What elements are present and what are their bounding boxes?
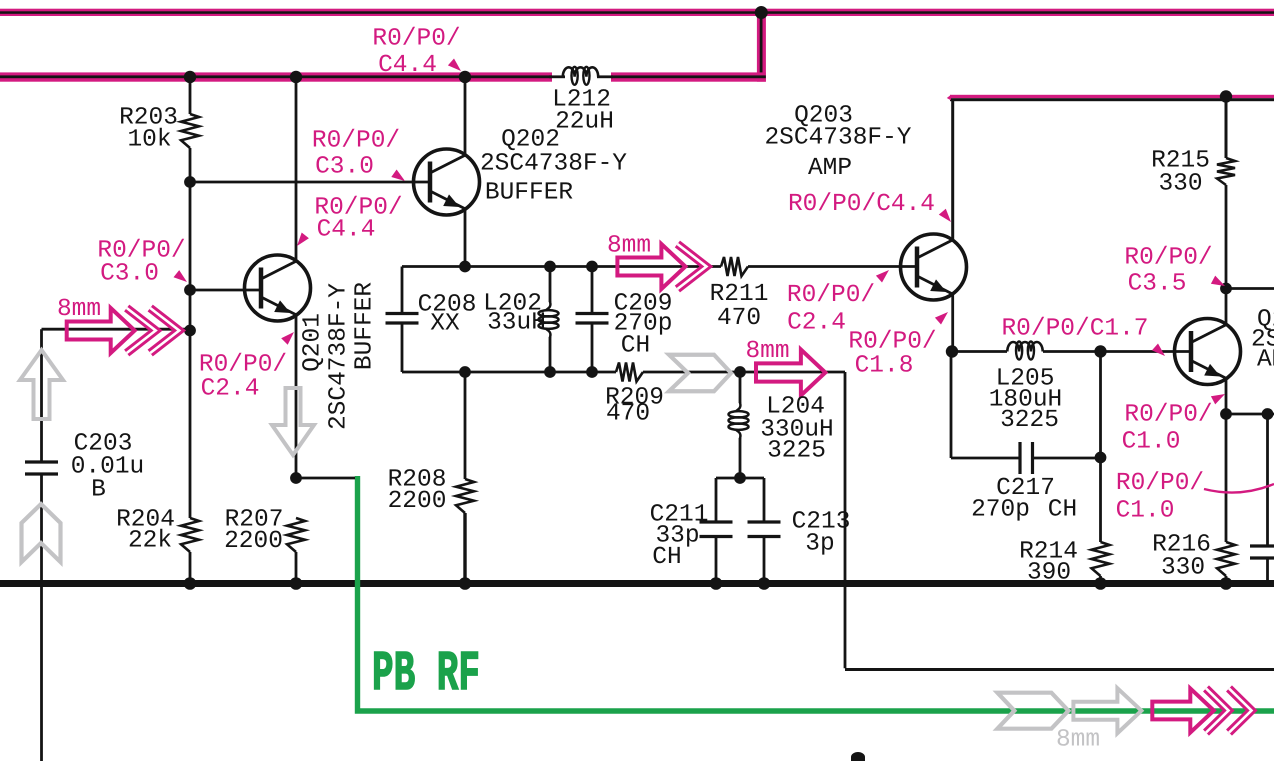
node tank bottom / C209 <box>586 366 598 378</box>
pointer to Q202 base <box>391 170 405 182</box>
svg-text:470: 470 <box>606 401 650 428</box>
wire C211 top lead <box>715 478 718 521</box>
svg-text:3225: 3225 <box>767 438 826 465</box>
wire bus2 to R203 <box>189 81 192 114</box>
pointer to bus2 <box>448 59 461 72</box>
node Q203 emitter junction <box>946 345 958 357</box>
svg-text:B: B <box>91 477 106 504</box>
node R215/Q204 collector tap <box>1220 283 1232 295</box>
resistor R215 330 <box>1217 158 1235 185</box>
svg-text:XX: XX <box>430 311 460 338</box>
pointer to Q201 emitter <box>281 332 294 345</box>
svg-text:R0/P0/: R0/P0/ <box>199 352 287 379</box>
svg-text:C3.0: C3.0 <box>315 154 374 181</box>
node C211 ground <box>710 577 723 590</box>
transistor Q204 2SC4738F-Y AMP <box>1175 319 1241 385</box>
svg-text:2200: 2200 <box>224 528 283 555</box>
wire C217 left lead <box>951 457 1020 460</box>
8mm arrow upper <box>617 244 685 289</box>
pointer to Q201 collector <box>297 233 309 247</box>
wire L204 top lead <box>739 372 742 403</box>
wire C208 top lead <box>401 267 404 313</box>
svg-text:AMP: AMP <box>808 155 852 182</box>
wire Q204 emitter <box>1225 379 1228 415</box>
svg-text:2200: 2200 <box>388 488 447 515</box>
node R216 ground <box>1220 577 1233 590</box>
grey chevron banner bottom <box>997 693 1068 729</box>
svg-text:8mm: 8mm <box>607 233 651 260</box>
svg-text:3p: 3p <box>805 531 834 558</box>
grey block arrow bottom <box>1073 688 1141 733</box>
node tank top / Q202 emitter <box>459 261 471 273</box>
capacitor C209 270p <box>576 312 609 315</box>
svg-text:3225: 3225 <box>1000 407 1059 434</box>
node tank top / C209 <box>586 261 598 273</box>
transistor Q203 2SC4738F-Y AMP <box>901 234 967 300</box>
wire Q203 collector <box>951 101 954 240</box>
node R214 ground <box>1094 577 1107 590</box>
svg-text:C2.4: C2.4 <box>787 310 846 337</box>
svg-text:AMP: AMP <box>1257 347 1274 374</box>
svg-text:CH: CH <box>1048 497 1077 524</box>
wire second power bus (highlighted) <box>0 72 552 81</box>
node C217/R214 <box>1095 452 1107 464</box>
svg-text:R211: R211 <box>710 281 769 308</box>
pointer to Q203 base <box>876 270 889 283</box>
svg-text:2SC4738F-Y: 2SC4738F-Y <box>326 283 353 430</box>
svg-text:C1.8: C1.8 <box>855 353 914 380</box>
wire L202 top lead <box>549 267 552 303</box>
wire tank bottom to R208 <box>464 372 467 479</box>
svg-text:C1.0: C1.0 <box>1116 497 1175 524</box>
transistor Q201 2SC4738F-Y <box>245 255 311 321</box>
svg-text:PB RF: PB RF <box>372 642 480 706</box>
wire right cap bottom lead <box>1266 559 1269 581</box>
resistor R216 330 <box>1217 542 1235 576</box>
svg-text:R0/P0/: R0/P0/ <box>312 128 400 155</box>
svg-text:10k: 10k <box>127 127 171 154</box>
wire Q202 base <box>190 181 430 184</box>
node R204 ground <box>184 577 197 590</box>
wire R207 to ground <box>295 552 298 581</box>
node base Q202 tap <box>184 176 196 188</box>
transistor Q202 2SC4738F-Y <box>414 149 480 215</box>
svg-text:470: 470 <box>717 305 761 332</box>
wire L212 left lead <box>549 75 565 78</box>
resistor R214 390 <box>1092 542 1110 576</box>
node Q201 emitter junction <box>290 472 302 484</box>
wire Q201 emitter to PB RF <box>296 477 355 480</box>
node 8mm arrow tap <box>184 325 196 337</box>
magenta 8mm arrow bottom right <box>1152 688 1214 732</box>
wire C211 bottom lead <box>715 538 718 581</box>
node Q204 emitter junction <box>1220 408 1232 420</box>
node bus2/Q202 <box>459 71 471 83</box>
svg-text:22k: 22k <box>128 528 172 555</box>
wire L202 bottom lead <box>549 337 552 372</box>
svg-text:330: 330 <box>1161 555 1205 582</box>
wire cap pair top rail <box>716 477 764 480</box>
svg-text:8mm: 8mm <box>745 338 789 365</box>
resistor R207 <box>287 518 305 552</box>
svg-text:0.01u: 0.01u <box>71 454 145 481</box>
svg-text:C4.4: C4.4 <box>378 52 437 79</box>
node junction top bus x=761 <box>755 6 768 19</box>
svg-text:Q202: Q202 <box>501 127 560 154</box>
wire vertical highlighted bus riser x=761 <box>757 10 766 82</box>
grey arrow up (tape path) <box>20 350 63 419</box>
svg-text:R0/P0/: R0/P0/ <box>848 329 936 356</box>
svg-text:Q201: Q201 <box>300 313 327 372</box>
wire corner down <box>844 372 847 668</box>
resistor R204 <box>181 518 199 552</box>
svg-text:22uH: 22uH <box>555 109 614 136</box>
svg-text:330: 330 <box>1158 171 1202 198</box>
svg-text:R0/P0/: R0/P0/ <box>1124 245 1212 272</box>
wire C203 top lead <box>40 329 43 461</box>
wire PB RF (green) <box>358 476 1274 711</box>
wire R215 to Q204 collector <box>1225 185 1228 325</box>
wire bus2 to Q202 collector <box>464 81 467 156</box>
wire L212 right lead <box>597 75 613 78</box>
wire bus2 to Q201 collector <box>295 81 298 261</box>
resistor R211 470 <box>721 257 748 276</box>
resistor R203 <box>181 114 199 148</box>
leader curve <box>1204 484 1274 493</box>
wire ground rail <box>0 580 1274 587</box>
inductor L204 330uH <box>729 411 749 417</box>
node L205/R214 junction <box>1094 345 1106 357</box>
wire emitter to right edge <box>1226 413 1274 416</box>
wire tank bottom rail <box>402 371 616 374</box>
svg-text:C1.0: C1.0 <box>1122 429 1181 456</box>
wire node to R214 <box>1099 352 1102 543</box>
wire C209 top lead <box>591 267 594 313</box>
node tank top / L202 <box>544 261 556 273</box>
pointer to Q204 collector node <box>1211 276 1225 286</box>
wire L204 bottom lead <box>739 438 742 478</box>
wire long output line <box>845 668 1274 671</box>
wire right cap top lead <box>1266 414 1269 545</box>
svg-text:C3.0: C3.0 <box>100 261 159 288</box>
inductor L205 180uH <box>1007 342 1042 352</box>
wire C208 bottom lead <box>401 324 404 372</box>
svg-text:C3.5: C3.5 <box>1128 271 1187 298</box>
wire Q203 emitter <box>951 294 954 352</box>
wire third bus to Q203/Q204 collectors (highlighted) <box>950 95 1274 98</box>
svg-text:270p: 270p <box>971 497 1030 524</box>
svg-text:2SC4738F-Y: 2SC4738F-Y <box>480 151 627 178</box>
svg-text:R0/P0/: R0/P0/ <box>787 282 875 309</box>
wire collector node to right edge <box>1226 287 1274 290</box>
svg-text:R0/P0/: R0/P0/ <box>1124 402 1212 429</box>
wire Q201 base <box>190 289 261 292</box>
node tank bottom / R208 branch <box>459 366 471 378</box>
node tank bottom / L202 <box>544 366 556 378</box>
wire Q202 emitter to tank <box>464 209 467 267</box>
wire bus3 to R215 <box>1225 101 1228 158</box>
capacitor C213 3p <box>748 520 781 523</box>
svg-text:R0/P0/: R0/P0/ <box>1116 470 1204 497</box>
svg-text:C4.4: C4.4 <box>317 217 376 244</box>
svg-text:R0/P0/: R0/P0/ <box>372 26 460 53</box>
wire tank top rail <box>402 265 592 268</box>
pointer to Q201 base node <box>174 270 188 282</box>
wire node to C203 branch <box>42 328 191 331</box>
node C213 ground <box>758 577 771 590</box>
node base Q201 tap <box>184 284 196 296</box>
svg-text:BUFFER: BUFFER <box>352 282 379 371</box>
svg-text:C2.4: C2.4 <box>201 376 260 403</box>
8mm arrow mid-lower <box>756 350 825 396</box>
wire R203 to R204 node column <box>189 148 192 518</box>
wire C203 bottom lead to edge <box>40 475 43 761</box>
wire R204 to ground <box>189 552 192 581</box>
8mm arrow left <box>67 308 135 353</box>
wire C213 top lead <box>763 478 766 521</box>
svg-text:8mm: 8mm <box>57 296 101 323</box>
clipped text bottom edge <box>851 752 865 761</box>
svg-text:33uH: 33uH <box>487 310 546 337</box>
svg-text:2SC4738F-Y: 2SC4738F-Y <box>764 125 911 152</box>
wire tank to R211 <box>592 265 721 268</box>
pointer to Q204 emitter node <box>1211 394 1225 404</box>
node bus2/Q201 <box>290 71 302 83</box>
wire R208 to ground <box>463 513 466 581</box>
wire top power bus B+ (highlighted) <box>0 9 1274 16</box>
grey arrow down (tape path) <box>272 388 314 455</box>
svg-text:BUFFER: BUFFER <box>485 180 574 207</box>
pointer to Q203 emitter <box>935 312 948 325</box>
node bus2/R203 <box>184 71 196 83</box>
wire R211 to Q203 base <box>748 265 917 268</box>
wire Q201 emitter to R207 <box>295 315 298 479</box>
capacitor right edge (clipped) <box>1250 544 1274 547</box>
wire emitter to R216 <box>1225 414 1228 542</box>
svg-text:R0/P0/C4.4: R0/P0/C4.4 <box>788 191 935 218</box>
node right cap junction <box>1262 408 1274 420</box>
capacitor C217 270p <box>1018 442 1021 474</box>
svg-text:8mm: 8mm <box>1056 727 1100 754</box>
svg-text:CH: CH <box>652 544 681 571</box>
wire C217 right lead <box>1033 457 1101 460</box>
pointer to Q203 collector <box>939 209 951 222</box>
wire emitter to L205 <box>952 350 1007 353</box>
node R208 ground <box>459 577 472 590</box>
wire C217 loop left <box>950 352 953 459</box>
wire C213 bottom lead <box>763 538 766 581</box>
grey fletching chevron up <box>22 504 61 562</box>
svg-text:R0/P0/C1.7: R0/P0/C1.7 <box>1001 316 1148 343</box>
pointer to Q204 base <box>1152 344 1165 357</box>
wire R209 to corner <box>643 371 845 374</box>
resistor R208 <box>456 479 474 513</box>
capacitor C211 33p <box>700 520 733 523</box>
resistor R209 470 <box>616 363 643 382</box>
capacitor C208 XX <box>386 312 419 315</box>
wire C209 bottom lead <box>591 324 594 372</box>
capacitor C203 0.01u <box>25 460 58 463</box>
node R207 ground <box>290 577 303 590</box>
inductor L202 33uH <box>539 310 559 316</box>
node L204 top junction <box>734 366 746 378</box>
node bus3/R215 <box>1220 90 1232 102</box>
grey chevron banner mid <box>669 355 731 392</box>
inductor L212 <box>563 67 598 76</box>
svg-text:CH: CH <box>621 333 650 360</box>
node C211/C213 junction <box>734 472 746 484</box>
svg-text:390: 390 <box>1027 560 1071 587</box>
wire L205 to Q204 base <box>1043 350 1189 353</box>
